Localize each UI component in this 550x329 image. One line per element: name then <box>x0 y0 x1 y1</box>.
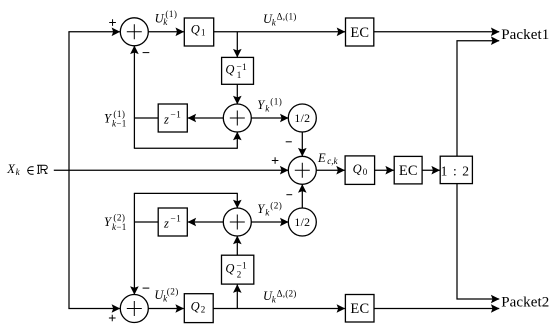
wire EC (bottom) to Packet2 <box>374 308 499 310</box>
wire EC (top) to Packet1 <box>374 31 499 33</box>
delay z^-1 (top) <box>158 104 187 132</box>
svg-text:1/2: 1/2 <box>294 215 310 229</box>
svg-text:1: 1 <box>201 28 206 38</box>
label U_k^(1) <box>155 9 178 27</box>
wire feedback horizontal (top) <box>134 147 237 149</box>
wire feedback horizontal (bottom) <box>134 192 237 194</box>
svg-text:−1: −1 <box>170 110 181 120</box>
svg-text:(1): (1) <box>270 96 282 106</box>
svg-text:−1: −1 <box>116 222 126 232</box>
svg-text:(1): (1) <box>165 9 177 19</box>
svg-text:EC: EC <box>350 301 369 317</box>
wire S2 to Q2 <box>148 308 183 310</box>
gain 1/2 (bottom) <box>288 208 316 236</box>
plus sign at S2 input <box>109 315 116 322</box>
wire P2 to half gain (bottom) <box>251 221 288 223</box>
svg-text:Packet2: Packet2 <box>501 294 549 310</box>
svg-text:−1: −1 <box>236 63 247 73</box>
wire top branch into sum S1 <box>68 31 120 33</box>
svg-text:1/2: 1/2 <box>294 111 310 125</box>
delay z^-1 (bottom) <box>158 208 187 236</box>
wire branch up to Q2 inverse <box>236 285 238 309</box>
svg-text:c,k: c,k <box>327 156 338 166</box>
svg-text:Q: Q <box>353 162 362 176</box>
summing node S2 (bottom-left) <box>120 295 148 323</box>
wire P1 to half gain (top) <box>251 117 288 119</box>
svg-text:E: E <box>317 151 326 165</box>
svg-text:EC: EC <box>350 25 369 41</box>
wire z^-1 output to junction (top) <box>134 117 158 119</box>
wire half (top) into central sum <box>301 132 303 156</box>
wire feedback up into S1 minus input <box>133 46 135 148</box>
minus sign at central sum top input <box>286 141 292 143</box>
svg-text:−1: −1 <box>170 214 181 224</box>
svg-text:Δ,(1): Δ,(1) <box>277 11 297 21</box>
central summing node C <box>288 156 316 184</box>
svg-text:2: 2 <box>201 304 206 314</box>
svg-text:0: 0 <box>363 167 368 177</box>
minus sign at S1 feedback input <box>143 52 150 54</box>
entropy coder EC (top) <box>346 18 374 46</box>
wire EC to 1:2 splitter <box>422 169 440 171</box>
wire feedback up into P1 plus input <box>236 132 238 149</box>
label Y_(k-1)^(1) <box>104 109 127 128</box>
wire left vertical branch <box>68 32 70 309</box>
entropy coder EC (middle) <box>394 156 422 184</box>
wire feedback down into S2 minus input <box>133 193 135 294</box>
svg-text:z: z <box>163 217 169 231</box>
wire Q2 to EC (bottom) <box>214 308 345 310</box>
svg-text:Q: Q <box>225 63 234 77</box>
inverse quantizer Q1^-1 <box>222 57 254 84</box>
svg-text:z: z <box>163 113 169 127</box>
wire 1:2 up to Packet1 <box>457 41 499 157</box>
svg-text:(1): (1) <box>113 109 125 119</box>
summing node S1 (top-left) <box>120 18 148 46</box>
wire P1 to z^-1 (top) <box>188 117 224 119</box>
wire feedback down into P2 plus input <box>236 193 238 208</box>
svg-text:(2): (2) <box>167 287 179 297</box>
splitter 1:2 <box>440 156 472 183</box>
plus sign at central sum left input <box>272 157 279 164</box>
wire bottom branch into sum S2 <box>68 308 120 310</box>
wire half (bottom) into central sum <box>301 184 303 208</box>
minus sign at S2 feedback input <box>143 287 150 289</box>
entropy coder EC (bottom) <box>345 295 374 323</box>
label Y_k^(1) <box>257 96 282 113</box>
svg-text:−1: −1 <box>236 262 247 272</box>
gain 1/2 (top) <box>288 104 316 132</box>
svg-text:k: k <box>16 167 21 177</box>
svg-text:(2): (2) <box>270 200 282 210</box>
minus sign at central sum bottom input <box>286 194 292 196</box>
svg-text:Q: Q <box>191 23 200 37</box>
summing node P2 (bottom reconstruction) <box>223 208 251 236</box>
wire branch down to Q1 inverse <box>236 32 238 57</box>
wire 1:2 down to Packet2 <box>457 184 499 299</box>
wire central sum to Q0 <box>316 169 344 171</box>
wire X input to central sum <box>54 169 288 171</box>
svg-text:1 : 2: 1 : 2 <box>441 163 471 178</box>
label E_(c,k) <box>317 151 339 166</box>
inverse quantizer Q2^-1 <box>222 255 254 284</box>
svg-text:−1: −1 <box>116 118 126 128</box>
wire Q1 inverse to sum P1 <box>236 84 238 104</box>
wire z^-1 output to junction (bottom) <box>134 221 158 223</box>
wire Q2 inverse to sum P2 <box>236 236 238 255</box>
label U_k^(Delta,(1)) <box>263 11 297 27</box>
wire S1 to Q1 <box>148 31 184 33</box>
node X_k input label <box>6 162 47 177</box>
svg-text:Q: Q <box>225 262 234 276</box>
label U_k^(2) <box>154 287 178 304</box>
label U_k^(Delta,(2)) <box>263 289 297 305</box>
quantizer Q1 <box>184 18 213 46</box>
quantizer Q0 <box>345 156 375 185</box>
wire Q1 to EC (top) <box>214 31 345 33</box>
svg-text:Δ,(2): Δ,(2) <box>277 289 297 299</box>
label Y_k^(2) <box>257 200 282 217</box>
svg-text:EC: EC <box>399 163 418 179</box>
plus sign at S1 input <box>109 19 116 26</box>
svg-text:Q: Q <box>191 299 200 313</box>
summing node P1 (top reconstruction) <box>223 104 251 132</box>
label Y_(k-1)^(2) <box>104 213 127 232</box>
wire P2 to z^-1 (bottom) <box>188 221 224 223</box>
quantizer Q2 <box>184 294 213 323</box>
svg-text:Packet1: Packet1 <box>501 27 549 43</box>
svg-text:(2): (2) <box>113 213 125 223</box>
wire Q0 to EC (middle) <box>375 169 394 171</box>
